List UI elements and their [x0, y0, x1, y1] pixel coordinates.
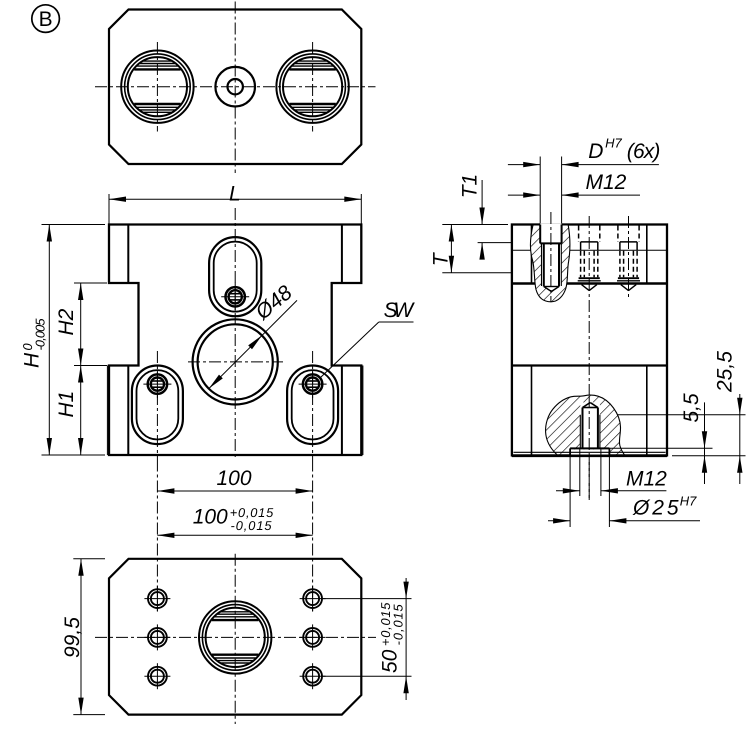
svg-text:H7: H7 — [680, 494, 697, 509]
front view center hole Ø48 — [198, 324, 273, 399]
svg-text:M12: M12 — [626, 468, 667, 491]
svg-text:D: D — [588, 140, 603, 163]
dimension 25,5 text — [714, 351, 737, 393]
dimension H text with tolerance — [20, 318, 48, 368]
T/T1 top face extension line — [442, 224, 508, 226]
side view chamfer edge top-left — [531, 225, 533, 284]
dimension 99,5 text — [61, 617, 84, 658]
front view top slot screw — [226, 287, 245, 306]
counterbore depth reference line (5,5) — [609, 447, 712, 449]
bottom view octagonal outline — [109, 559, 361, 715]
front view left slot center line — [156, 351, 158, 460]
top view center hole inner circle — [228, 79, 243, 94]
dimension T text — [430, 251, 453, 266]
dimension L extension line right — [360, 194, 362, 224]
dimension 100 with tolerance line — [157, 534, 312, 536]
front view vertical center line — [234, 208, 236, 460]
dimension D H7 (6x) line — [508, 164, 540, 166]
right socket vertical center line — [312, 42, 314, 132]
bottom view hole A2 — [148, 628, 167, 647]
side view main outline — [512, 225, 667, 456]
front view top slot outer — [209, 237, 261, 316]
top view center hole — [215, 67, 255, 107]
dimension M12 (top) line — [508, 194, 540, 196]
bottom face extension line right — [672, 455, 746, 457]
dimension M12 (bottom) line — [556, 490, 580, 492]
D H7 extension line left — [539, 157, 541, 224]
M12 thread hole (sectioned) — [542, 243, 562, 286]
svg-text:T: T — [430, 251, 453, 266]
bottom view center socket — [199, 601, 271, 673]
side view top band bottom edge — [512, 282, 667, 285]
front view left chamfer edge lower — [127, 366, 129, 456]
dimension 50 extension line top — [322, 598, 412, 600]
dimension L line with arrows — [109, 198, 361, 200]
svg-text:100: 100 — [193, 506, 228, 529]
top broken-out section blob — [531, 225, 570, 302]
svg-text:5,5: 5,5 — [680, 393, 703, 423]
front view bottom left slot outer — [132, 366, 183, 445]
front view bottom right slot screw — [303, 374, 322, 393]
dimension T1 text — [458, 174, 481, 199]
extension/center lines for 100 dimensions — [156, 460, 158, 612]
Ø25 H7 counterbore recess (sectioned) — [571, 449, 608, 455]
thread drill cone point — [544, 287, 552, 292]
bottom view hole B2 — [303, 628, 322, 647]
front view bottom right slot inner — [292, 370, 334, 439]
svg-text:H: H — [21, 352, 44, 368]
dimension 50 tolerance text — [378, 602, 406, 673]
dimension 5,5 text — [680, 393, 703, 423]
bottom view hole B3 — [303, 667, 322, 686]
front view bottom left slot inner — [137, 370, 179, 439]
svg-text:T1: T1 — [458, 174, 481, 199]
svg-text:(6x): (6x) — [627, 140, 661, 163]
svg-text:25,5: 25,5 — [714, 351, 737, 393]
bottom view hole B1 — [303, 589, 322, 608]
svg-text:H2: H2 — [55, 308, 78, 335]
side view chamfer edge bottom-right — [646, 366, 648, 456]
side view chamfer edge top-right — [646, 225, 648, 284]
svg-text:-0,015: -0,015 — [391, 603, 406, 645]
dimension Ø25 H7 line — [548, 520, 570, 522]
dimension 100 line — [157, 490, 312, 492]
T1 depth extension line — [478, 242, 513, 244]
side view top band thin line — [512, 249, 667, 251]
dimension H2 text — [55, 308, 78, 335]
svg-text:99,5: 99,5 — [61, 617, 84, 658]
SW leader line — [320, 322, 379, 378]
dimension H1 text — [55, 391, 78, 418]
front view top slot inner — [214, 242, 257, 312]
front view thin edge line lower left — [106, 366, 108, 456]
svg-text:-0,015: -0,015 — [231, 518, 273, 533]
dimension 99,5 extension line bottom — [73, 714, 105, 716]
front view bottom left slot screw — [148, 374, 167, 393]
T depth extension line — [442, 272, 513, 274]
svg-text:Ø25: Ø25 — [632, 497, 679, 520]
dimension H2/H1 shared extension line middle — [74, 365, 107, 367]
right hidden hole center line — [628, 216, 630, 300]
front view center hole horizontal center line — [188, 361, 283, 363]
svg-text:100: 100 — [217, 467, 252, 490]
front view left chamfer edge upper — [127, 225, 129, 284]
svg-text:-0,005: -0,005 — [33, 318, 48, 351]
dimension 99,5 line — [80, 559, 82, 715]
D H7 counterbore (sectioned) — [540, 223, 561, 243]
bottom view horizontal center line — [95, 636, 376, 638]
dimension H extension line bottom — [42, 454, 106, 456]
Ø25 recess outline — [570, 447, 609, 449]
front view bottom right slot outer — [287, 366, 338, 445]
front view right chamfer edge lower — [341, 366, 343, 456]
bottom hole center line — [588, 396, 590, 500]
side view vertical center line — [588, 216, 590, 500]
top view octagonal outline — [109, 10, 361, 165]
thread depth reference line (25,5) — [600, 414, 746, 416]
D H7 extension line right — [561, 157, 563, 224]
bottom view hole A3 — [148, 667, 167, 686]
front view right chamfer edge upper — [341, 225, 343, 284]
dimension 25,5 line — [739, 394, 741, 484]
hidden tapped hole with set screw (right) — [617, 226, 619, 242]
front view center hole outer circle — [193, 319, 278, 404]
sectioned hole center line — [550, 212, 552, 302]
top view right threaded socket — [276, 50, 348, 122]
bottom broken-out section blob — [546, 395, 625, 455]
M12 bottom extension lines — [579, 449, 581, 496]
dimension 50 extension line bottom — [322, 675, 412, 677]
hidden tapped hole with set screw (middle) — [578, 226, 580, 242]
svg-text:SW: SW — [384, 299, 416, 322]
top view left threaded socket — [121, 50, 193, 122]
bottom view vertical center line — [234, 554, 236, 724]
svg-text:B: B — [39, 8, 53, 31]
svg-text:L: L — [229, 182, 241, 205]
dimension L extension line left — [108, 194, 110, 224]
svg-text:H1: H1 — [55, 391, 78, 418]
M12 tapped hole (bottom, sectioned) — [580, 402, 600, 448]
svg-text:50: 50 — [379, 649, 402, 673]
front view outline (block silhouette with side notches) — [109, 225, 361, 456]
dimension H line — [48, 225, 50, 456]
dimension 50 line — [405, 578, 407, 700]
dimension H1 line — [80, 366, 82, 456]
top view vertical center line — [234, 2, 236, 174]
svg-text:H7: H7 — [605, 136, 622, 151]
front view thin edge line lower right — [362, 366, 364, 456]
left socket vertical center line — [156, 42, 158, 132]
view label B circle — [32, 5, 60, 33]
Ø25 extension lines — [569, 457, 571, 528]
svg-text:M12: M12 — [586, 171, 627, 194]
front view right slot center line — [312, 351, 314, 460]
side view middle band bottom edge — [512, 364, 667, 366]
dimension 99,5 extension line top — [73, 558, 105, 560]
bottom drill cone point — [583, 403, 591, 408]
dimension H2 extension line top — [74, 282, 107, 284]
Ø48 diameter leader line — [209, 300, 297, 388]
side view chamfer edge bottom-left — [531, 366, 533, 456]
side view bottom face line — [512, 454, 667, 457]
dimension T1 line and arrows — [481, 180, 483, 225]
dimension T line and arrows — [450, 225, 452, 273]
dimension H2 line — [80, 283, 82, 366]
dimension 5,5 line — [704, 402, 706, 484]
dimension H extension line top — [42, 224, 106, 226]
bottom view hole A1 — [148, 589, 167, 608]
top view horizontal center line — [95, 86, 376, 88]
